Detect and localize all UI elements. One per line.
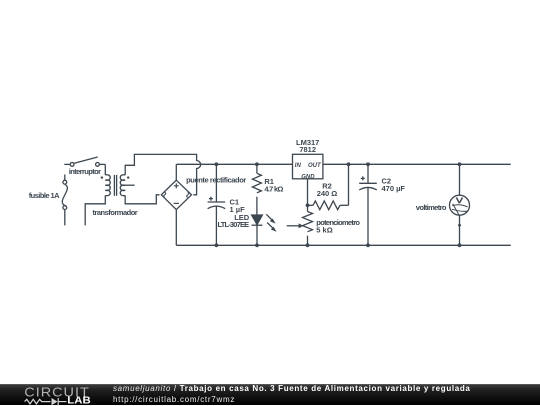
junction node OUT/R2 [347,162,351,166]
CircuitLab logo [0,385,100,406]
junction node C1 top [215,162,219,166]
svg-text:fusible 1A: fusible 1A [29,191,60,200]
voltage regulator U1 LM317 box [293,154,323,179]
footer bar [0,384,540,405]
transformer phase dot primary [101,176,103,178]
svg-text:transformador: transformador [93,208,138,217]
bridge rectifier D1 puente rectificador [161,180,191,209]
resistor R2 [308,201,349,210]
svg-text:LTL-307EE: LTL-307EE [218,220,250,229]
junction node LED bottom [255,243,259,247]
svg-text:voltimetro: voltimetro [416,203,447,212]
svg-text:GND: GND [301,174,315,180]
svg-text:OUT: OUT [308,163,322,169]
transformer T1 primary winding [85,164,110,225]
svg-text:4.7 kΩ: 4.7 kΩ [264,184,283,193]
transformer T1 secondary winding with center tap [120,175,134,196]
junction node C2 bottom [366,243,370,247]
svg-text:470 µF: 470 µF [382,184,406,193]
transformer core [114,175,116,196]
footer url text [113,396,235,404]
bridge AC label left [164,192,166,197]
fuse F1 fusible 1A [62,175,67,226]
wire bridge bottom to ground rail [175,210,177,246]
svg-text:240 Ω: 240 Ω [317,189,338,198]
capacitor C2 [359,164,377,245]
switch SW1 interruptor [64,157,105,166]
junction node GND/R2/pot [306,203,310,207]
potentiometer R3 [287,205,313,245]
bridge AC label right [187,192,189,197]
resistor R1 [252,164,261,215]
svg-text:puente rectificador: puente rectificador [186,176,246,185]
footer title text [113,385,471,393]
wire secondary top to bridge right [125,154,200,194]
svg-text:LAB: LAB [67,396,90,406]
voltmeter M1 [450,164,470,245]
wire R2 right to OUT rail [348,164,350,205]
wire bridge top to positive rail [175,164,177,180]
junction node voltmeter bottom [458,243,462,247]
capacitor C1 [208,164,226,245]
transformer phase dot secondary [127,176,129,178]
svg-text:interruptor: interruptor [69,167,101,176]
svg-text:7812: 7812 [299,145,316,154]
bridge polarity minus label [174,202,179,204]
svg-text:5 kΩ: 5 kΩ [316,226,332,235]
LED D2 LTL-307EE [252,214,277,245]
bridge polarity plus label [174,183,179,188]
junction node pot bottom [306,243,310,247]
positive rail top [176,163,510,165]
svg-text:IN: IN [295,163,302,169]
junction node C1 bottom [215,243,219,247]
junction node C2 top [366,162,370,166]
ground rail bottom [176,244,510,246]
wire U1 GND pin down [307,179,309,206]
wire secondary bottom to bridge left [125,195,159,204]
junction node R1 top [255,162,259,166]
junction node voltmeter top [458,162,462,166]
